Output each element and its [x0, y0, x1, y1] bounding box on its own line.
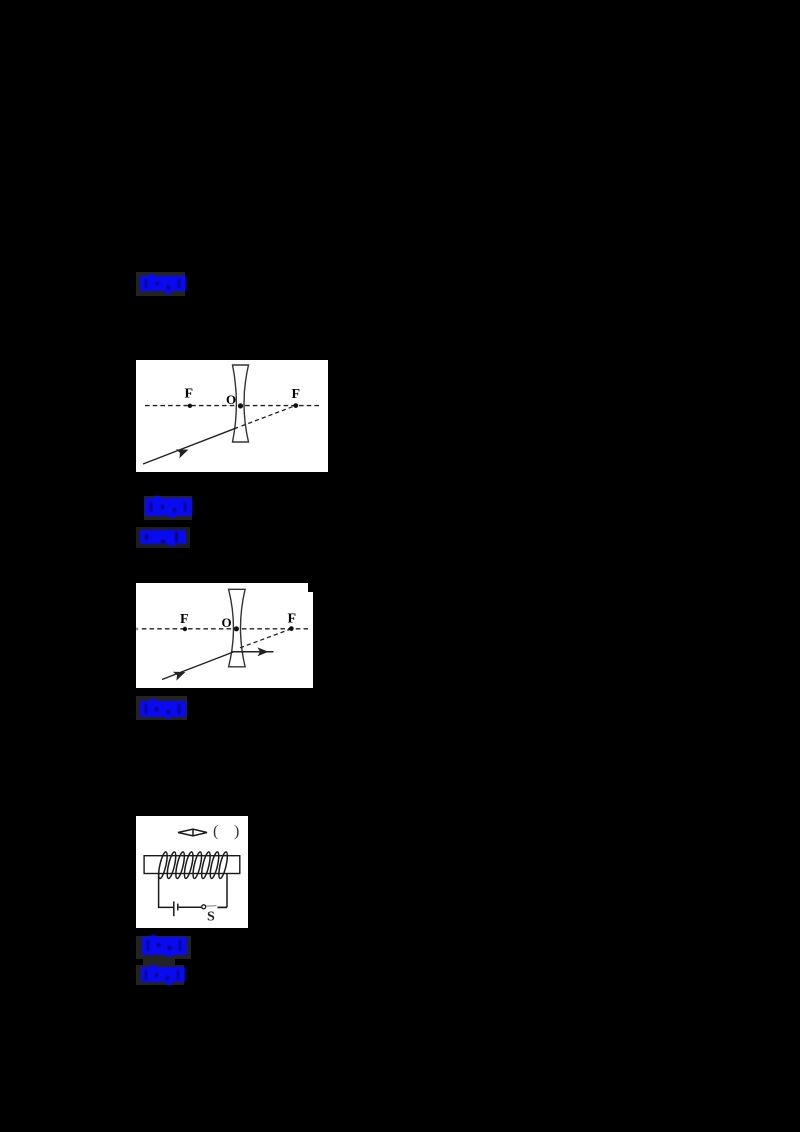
refracted ray (horizontal, arrow right) [231, 650, 273, 652]
svg-text:O: O [221, 614, 231, 629]
highlight box behind label 6 [136, 965, 184, 986]
blue label 2 [145, 498, 192, 517]
svg-text:F: F [287, 611, 296, 626]
highlight box behind label 2 [144, 496, 192, 520]
principal axis (dashed) [145, 405, 319, 407]
blue label 3 [140, 530, 186, 544]
dashed extension to focal point F [242, 406, 296, 426]
incident ray [162, 652, 233, 679]
svg-text:): ) [234, 823, 239, 840]
compass needle (rhombus with centre bar) [178, 829, 207, 837]
focal point dot right [293, 403, 298, 408]
focal point dot left [188, 404, 192, 408]
highlight box behind label 1 [136, 272, 185, 296]
blue label 4 [140, 701, 186, 717]
principal axis (dashed) [141, 627, 308, 629]
figure 2: diverging lens refraction diagram (white panel) [136, 583, 313, 688]
svg-text:S: S [207, 910, 215, 925]
svg-text:(: ( [213, 823, 218, 840]
incident ray [143, 427, 238, 464]
highlight box behind label 4 [136, 696, 188, 721]
dashed backward extension to F [240, 628, 291, 647]
figure 1: diverging lens ray diagram (white panel) [136, 360, 328, 472]
battery short plate [176, 904, 178, 911]
svg-text:O: O [226, 392, 236, 407]
focal point dot left [182, 626, 186, 630]
switch pivot circle [201, 905, 205, 909]
blue label 6 [141, 967, 186, 983]
focal point dot right [288, 626, 293, 631]
figure 3: solenoid circuit with compass (white panel) [136, 816, 248, 928]
svg-text:F: F [180, 612, 189, 627]
wire battery to switch [178, 906, 201, 908]
solenoid core rectangle [144, 856, 240, 874]
svg-text:F: F [185, 387, 194, 402]
black notch top-right corner [308, 583, 313, 592]
highlight tail between label 5 and 6 [143, 959, 175, 968]
blue label 5 [142, 937, 187, 955]
right wire up [226, 874, 228, 907]
lens (concave) [228, 589, 245, 667]
wire to right corner [217, 906, 227, 908]
battery long plate [172, 901, 174, 916]
svg-text:F: F [292, 387, 301, 402]
highlight box behind label 3 [136, 527, 190, 548]
optical center dot [233, 626, 238, 631]
lens (concave) [233, 365, 249, 442]
optical center dot [238, 403, 243, 408]
highlight box behind label 5 [136, 936, 191, 959]
arrowhead on incident ray [176, 445, 190, 458]
left wire down [158, 874, 172, 908]
blue label 1 [140, 276, 186, 292]
coil turns (8 loops) [156, 851, 228, 879]
arrowhead on incident ray [172, 667, 186, 680]
switch lever (light grey) [206, 905, 217, 908]
